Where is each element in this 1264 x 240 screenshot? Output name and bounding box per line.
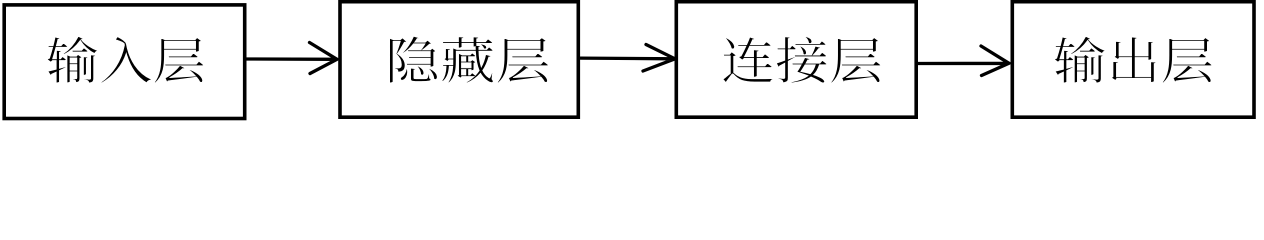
arrow from box 1 to box 2 — [247, 43, 338, 74]
box 3 连接层 connection layer — [676, 2, 916, 118]
text label 连接层 (connection layer) — [723, 37, 881, 83]
box 2 隐藏层 hidden layer — [340, 2, 578, 118]
box 1 输入层 input layer — [4, 5, 245, 119]
arrow from box 3 to box 4 — [918, 46, 1009, 76]
text label 输入层 (input layer) — [47, 36, 203, 83]
text label 输出层 (output layer) — [1054, 36, 1212, 83]
box 4 输出层 output layer — [1012, 2, 1254, 118]
text label 隐藏层 (hidden layer) — [390, 36, 549, 83]
arrow from box 2 to box 3 — [580, 45, 675, 72]
